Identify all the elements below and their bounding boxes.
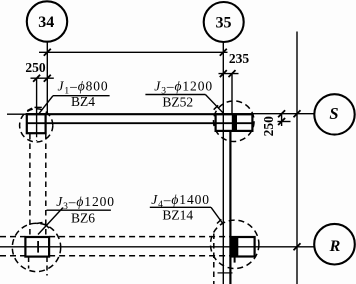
pile center dashes below cap 34S: [36, 133, 38, 141]
svg-text:R: R: [329, 238, 341, 255]
svg-text:BZ6: BZ6: [71, 210, 95, 225]
hidden beam dashed bottom left segment: [0, 255, 25, 257]
leader J3 top: [205, 95, 224, 115]
pile cap BZ14 outline (35/R): [231, 237, 254, 257]
extension vertical line at right: [296, 32, 298, 284]
dashed vertical line left of cap 35R: [213, 234, 215, 284]
S axis left segment: [7, 113, 27, 115]
tick at axis 34 top: [44, 49, 51, 56]
leader J4 tick: [217, 219, 221, 223]
axis circle 35: [204, 2, 244, 42]
vertical dimension 250 line: [281, 114, 283, 126]
pile cap BZ4 square (34/S): [27, 114, 46, 133]
label J1 divider line: [53, 95, 110, 97]
extension line pile center 34S: [36, 78, 38, 133]
tick S axis at extension line: [294, 110, 301, 117]
leader J4: [211, 207, 224, 224]
pile dashed circle 34/S: [20, 109, 53, 142]
dimension 235 line: [219, 73, 239, 75]
wall dashed line left b: [45, 134, 47, 237]
stub line below cap 35R: [234, 257, 236, 263]
axis circle R: [314, 224, 355, 265]
tick R axis at extension line: [294, 243, 301, 250]
dashes below cap 34R a: [28, 257, 30, 269]
hidden beam dashed top mid segment: [49, 236, 231, 238]
pile dashed circle 35/R: [211, 220, 259, 268]
pile cap BZ52 rect (35/S): [216, 114, 253, 131]
tick 250 right: [44, 75, 51, 82]
hidden beam dashed bottom mid segment: [49, 255, 231, 257]
tick 235 right: [229, 70, 236, 77]
leader J1 arrow barb: [27, 108, 32, 111]
pile dashed circle 34/R: [12, 223, 60, 271]
dashes below cap 34R b: [46, 257, 48, 276]
svg-text:250: 250: [25, 60, 46, 75]
leader J3 bottom: [38, 208, 63, 235]
leader J1: [39, 96, 54, 115]
small dash below cap 35R: [218, 272, 233, 274]
svg-text:235: 235: [229, 51, 250, 66]
leader J3 bottom tick: [45, 224, 49, 228]
svg-text:250: 250: [261, 116, 276, 137]
wall dashed line left a: [29, 134, 31, 237]
pile cap BZ6 square (34/R): [25, 237, 49, 257]
svg-text:BZ14: BZ14: [162, 208, 193, 223]
leader J3 bottom barb dash: [37, 223, 43, 224]
axis circle 34: [27, 1, 67, 41]
label J3 bottom divider line: [47, 209, 111, 211]
axis 34 vertical line: [46, 42, 48, 115]
axis 35 vertical line: [222, 42, 224, 284]
svg-text:35: 35: [216, 15, 232, 32]
dimension 250 (left) line: [31, 77, 54, 79]
top dimension line: [39, 51, 228, 53]
pile dashed circle 35/S: [214, 101, 255, 142]
tick at axis 35 top: [220, 49, 227, 56]
svg-text:BZ52: BZ52: [162, 94, 193, 109]
tick vert 250 bottom: [278, 118, 285, 125]
column section filled bar 35/S: [232, 114, 237, 131]
extension line pile center 35S: [231, 74, 233, 115]
leader J3 top tick: [214, 105, 218, 109]
center mark 34/R: [37, 241, 39, 253]
wall solid line right (thick): [229, 131, 231, 284]
tick 250 left: [33, 75, 40, 82]
label J3 top divider line: [145, 94, 205, 96]
S axis right segment: [252, 113, 314, 115]
svg-text:34: 34: [38, 14, 54, 31]
svg-text:S: S: [329, 104, 338, 123]
hidden beam dashed top left segment: [0, 236, 25, 238]
column section filled bar 35/R: [230, 237, 238, 257]
tick 235 left: [220, 70, 227, 77]
pile center extension line right of 35S: [278, 121, 291, 123]
leader J1 arrow dash: [35, 106, 42, 108]
beam top edge (S axis): [26, 113, 254, 115]
R axis line: [0, 246, 314, 248]
tick vert 250 top: [278, 110, 285, 117]
label J4 divider line: [150, 206, 211, 208]
beam bottom edge: [27, 122, 253, 124]
axis circle S: [314, 94, 354, 134]
